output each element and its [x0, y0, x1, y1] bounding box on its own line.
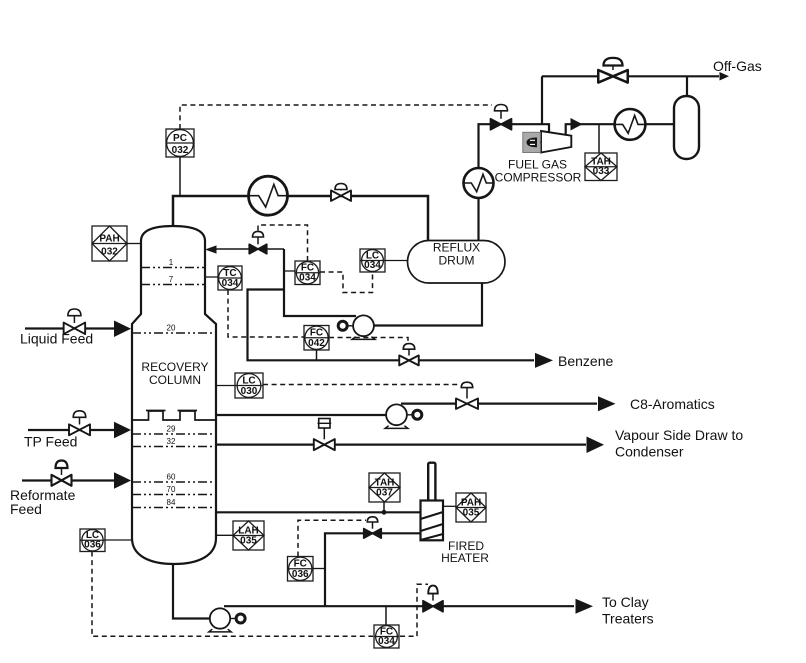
fired heater stack: [428, 463, 435, 501]
svg-text:Condenser: Condenser: [615, 444, 684, 460]
signal PC032 to compressor suction valve (dashed): [180, 105, 492, 129]
wire liquid feed: [25, 327, 114, 329]
svg-text:C8-Aromatics: C8-Aromatics: [630, 396, 715, 412]
arrow compressor discharge: [571, 118, 583, 131]
signal FC036 to heater fuel valve (dashed): [298, 520, 366, 556]
instrument LC-030: [235, 373, 263, 398]
hand valve vapour side draw: [314, 419, 335, 451]
signal LC036 to clay valve (dashed): [92, 552, 373, 637]
wire PAH035 stem: [443, 505, 456, 507]
tray 84: [132, 498, 216, 508]
svg-text:Feed: Feed: [10, 501, 42, 517]
column C-1 recovery column shell: [132, 226, 216, 564]
svg-text:Off-Gas: Off-Gas: [713, 58, 762, 74]
wire reflux drum outlet to pump suction: [375, 283, 483, 326]
instrument PAH-035: [456, 493, 486, 522]
wire column bottoms to pump: [173, 560, 210, 619]
arrow TP feed: [114, 422, 131, 439]
svg-text:035: 035: [240, 536, 257, 547]
svg-text:042: 042: [308, 338, 325, 349]
heat exchanger E-2 compressor aftercooler: [615, 109, 646, 140]
wire PC032 process stem: [179, 157, 181, 196]
instrument FC-034-bottoms: [374, 625, 399, 648]
arrow C8-Aromatics: [598, 396, 616, 411]
svg-text:034: 034: [364, 260, 381, 271]
wire LC034 stem to reflux drum: [385, 260, 408, 262]
compressor motor (gray box): [523, 132, 541, 152]
instrument TAH-033: [585, 153, 617, 181]
arrow reformate feed: [114, 472, 131, 489]
wire column to fired heater inlet: [216, 511, 421, 513]
svg-text:REFLUX: REFLUX: [433, 241, 480, 255]
svg-text:Treaters: Treaters: [602, 611, 654, 627]
wire benzene branch: [248, 290, 535, 361]
svg-text:DRUM: DRUM: [439, 254, 475, 268]
wire TAH037 stem: [383, 502, 385, 511]
instrument LC-034: [360, 249, 385, 272]
tray 32: [132, 437, 216, 447]
vessel reflux drum: [408, 241, 506, 284]
control valve C8 aromatics: [456, 382, 478, 409]
tray 60: [132, 473, 216, 483]
wire TAH033 stem: [598, 124, 600, 153]
signal FC042 to benzene valve (dashed): [329, 338, 408, 345]
signal FC034 to reflux valve (dashed): [258, 225, 308, 261]
svg-text:Vapour Side Draw to: Vapour Side Draw to: [615, 427, 743, 443]
fuel gas compressor body: [541, 131, 571, 153]
svg-text:Benzene: Benzene: [558, 353, 613, 369]
heat exchanger E-3 trim condenser: [464, 168, 494, 198]
wire LC036 stem: [105, 539, 134, 541]
wire C8 pump discharge: [401, 403, 597, 405]
wire off-gas header: [542, 75, 719, 77]
tray 7: [141, 275, 205, 285]
control valve overhead line: [331, 184, 351, 201]
svg-text:FUEL GAS: FUEL GAS: [508, 158, 567, 172]
control valve heater fuel: [364, 517, 382, 538]
instrument TC-034: [218, 266, 242, 290]
instrument PAH-032: [92, 226, 127, 261]
wire compressor discharge to KO drum: [566, 124, 674, 135]
instrument PC-032: [166, 129, 194, 157]
tray 20: [132, 324, 216, 334]
junction TAH037 tap: [382, 510, 387, 515]
svg-text:1: 1: [169, 258, 174, 267]
wire reflux line into column: [215, 248, 284, 250]
wire vapour side draw: [216, 444, 586, 446]
wire TC034 stem: [205, 276, 218, 278]
instrument LC-036: [80, 529, 105, 552]
wire LAH035 stem: [216, 534, 233, 536]
svg-text:034: 034: [378, 636, 395, 647]
instrument LAH-035: [233, 521, 264, 550]
arrow off-gas: [720, 72, 730, 81]
pump P-2 C8 draw pump: [385, 404, 422, 428]
wire PAH032 stem: [127, 243, 141, 245]
wire compressor suction from condenser riser: [479, 124, 550, 240]
control valve liquid feed: [64, 309, 86, 334]
vessel KO drum: [674, 96, 699, 159]
svg-text:COLUMN: COLUMN: [149, 373, 201, 387]
control valve to clay treaters: [423, 586, 443, 612]
wire overhead vapour line column to reflux drum: [173, 196, 428, 241]
svg-text:LC: LC: [242, 375, 255, 386]
wire heater fuel line from bottoms: [325, 533, 421, 606]
signal LC030 to C8 valve (dashed): [263, 384, 460, 386]
wire FC042 stem: [316, 350, 318, 360]
arrow liquid feed: [114, 320, 131, 337]
arrow benzene: [535, 353, 553, 368]
wire FC036 stem: [313, 568, 325, 570]
tray 70: [132, 485, 216, 495]
svg-text:036: 036: [84, 539, 101, 550]
svg-text:84: 84: [167, 498, 176, 507]
wire TP feed: [28, 429, 114, 431]
wire C8 draw from column to pump: [216, 414, 387, 416]
svg-text:037: 037: [376, 488, 393, 499]
wire reformate feed: [22, 479, 114, 481]
wire bottoms pump discharge to clay treaters: [224, 605, 574, 607]
svg-text:HEATER: HEATER: [441, 551, 489, 565]
wire off-gas branch riser: [541, 76, 543, 124]
svg-text:033: 033: [593, 166, 610, 177]
fired heater body: [421, 501, 444, 541]
svg-text:To Clay: To Clay: [602, 594, 649, 610]
signal TC034 to FC042 (dashed): [228, 290, 304, 337]
pump P-1 reflux pump: [338, 315, 375, 339]
arrow to clay treaters: [576, 599, 594, 614]
svg-text:035: 035: [463, 508, 480, 519]
svg-text:034: 034: [222, 278, 239, 289]
wire FC034 stem to reflux riser: [284, 270, 295, 272]
control valve compressor suction: [491, 105, 512, 130]
chimney tray: [132, 411, 216, 421]
wire FC034 bottom stem: [385, 606, 387, 625]
arrow vapour side draw: [587, 436, 605, 453]
instrument FC-036: [288, 557, 314, 582]
svg-text:RECOVERY: RECOVERY: [141, 360, 208, 374]
svg-text:20: 20: [167, 324, 176, 333]
svg-text:29: 29: [167, 425, 176, 434]
control valve TP feed: [69, 411, 90, 436]
tray 1: [141, 258, 205, 268]
svg-text:PAH: PAH: [99, 233, 119, 244]
control valve benzene: [399, 344, 419, 366]
signal clay valve branch (dashed): [400, 584, 428, 636]
instrument FC-042: [304, 326, 329, 351]
control valve reflux to column: [249, 231, 267, 253]
tray 29: [132, 425, 216, 435]
svg-text:036: 036: [292, 569, 309, 580]
arrow reflux into column: [205, 245, 217, 253]
svg-text:7: 7: [169, 275, 174, 284]
pump P-3 bottoms pump: [209, 608, 245, 632]
instrument FC-034-reflux: [295, 261, 320, 285]
svg-text:PC: PC: [173, 133, 187, 144]
wire reflux pump discharge riser: [284, 249, 356, 316]
svg-text:70: 70: [167, 485, 176, 494]
svg-text:032: 032: [101, 247, 118, 258]
wire LC030 stem: [216, 385, 235, 387]
instrument TAH-037: [369, 473, 400, 502]
svg-text:030: 030: [241, 386, 258, 397]
wire KO drum inlet riser: [686, 76, 688, 96]
heat exchanger E-1 overhead condenser: [249, 176, 288, 215]
control valve reformate feed: [52, 461, 72, 486]
control valve off-gas: [598, 58, 628, 83]
svg-text:32: 32: [167, 437, 176, 446]
svg-text:COMPRESSOR: COMPRESSOR: [495, 171, 582, 185]
svg-text:034: 034: [299, 272, 316, 283]
svg-text:032: 032: [172, 145, 189, 156]
signal FC034 to LC034 cascade (dashed): [320, 272, 373, 293]
svg-text:60: 60: [167, 473, 176, 482]
